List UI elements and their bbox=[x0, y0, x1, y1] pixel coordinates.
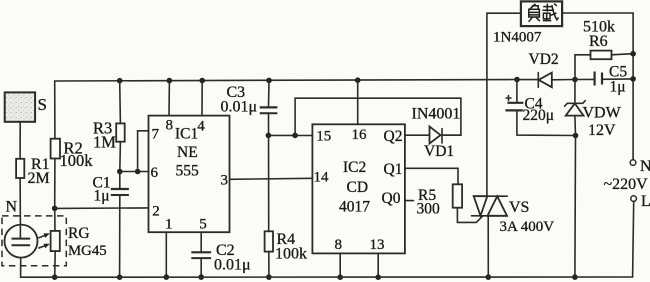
svg-text:0.01μ: 0.01μ bbox=[221, 99, 258, 116]
wire: triac MT1 to ground bbox=[487, 216, 489, 277]
svg-text:5: 5 bbox=[199, 217, 207, 233]
wire: pin15 node to IC2 pin 15 bbox=[268, 134, 312, 136]
svg-text:12V: 12V bbox=[588, 122, 616, 139]
wire: VDW node to ground bbox=[574, 136, 577, 278]
svg-text:NE: NE bbox=[177, 144, 198, 161]
wire: IC2 pin 13 to ground bbox=[377, 253, 379, 277]
svg-text:VDW: VDW bbox=[583, 105, 622, 122]
svg-text:Q1: Q1 bbox=[384, 161, 403, 178]
wire: pin6 node to IC1 pin 6 bbox=[120, 171, 149, 173]
junction: C4 / VDW bottom node bbox=[573, 133, 579, 139]
wire: top VCC rail bbox=[55, 80, 517, 82]
svg-text:1: 1 bbox=[165, 217, 173, 233]
junction: pin2 node bbox=[52, 206, 58, 212]
svg-text:S: S bbox=[38, 95, 47, 114]
terminal N bbox=[630, 158, 650, 175]
wire: R1 to neon lamp bbox=[19, 178, 21, 225]
wire: S to R1 bbox=[19, 122, 21, 159]
svg-text:16: 16 bbox=[352, 127, 368, 143]
wire: Q1 to R5 bbox=[405, 168, 458, 184]
svg-text:VS: VS bbox=[509, 199, 529, 216]
capacitor C3 bbox=[221, 80, 278, 115]
capacitor C4 bbox=[505, 80, 554, 124]
svg-text:1N4007: 1N4007 bbox=[493, 30, 542, 46]
wire: bottom ground rail bbox=[21, 276, 633, 278]
wire: Q2 to VD1 bbox=[405, 134, 430, 136]
capacitor C2 bbox=[191, 232, 250, 273]
junction: rail / VD2 / C4 node bbox=[514, 77, 520, 83]
resistor R4 bbox=[265, 231, 307, 262]
wire: C2 to ground bbox=[200, 258, 202, 277]
wire: R2 to pin2 node bbox=[54, 159, 56, 209]
svg-text:220μ: 220μ bbox=[523, 107, 555, 124]
junction: C1 ground bbox=[117, 274, 123, 280]
glyph 负 bbox=[529, 4, 540, 22]
neon lamp N bbox=[5, 199, 38, 258]
wire: reset loop up-over from pin15 to VD1 bbox=[295, 98, 461, 135]
wire: load left lead bbox=[487, 12, 521, 14]
resistor R5 bbox=[417, 184, 463, 217]
resistor R2 bbox=[51, 139, 94, 171]
wire: RG to ground rail bbox=[54, 251, 57, 277]
junction: pin7 branch on pin6 wire bbox=[135, 169, 141, 175]
wire: C4 bottom to VDW node bbox=[517, 110, 576, 135]
wire: R5 to triac gate bbox=[457, 208, 483, 223]
wire: rail to R3 bbox=[119, 81, 122, 124]
capacitor C5 bbox=[575, 64, 633, 96]
junction: rail / C3 bbox=[266, 78, 272, 84]
junction: C5 / right vertical bbox=[630, 76, 636, 82]
svg-text:13: 13 bbox=[370, 237, 385, 253]
junction: IC2 pin13 ground bbox=[375, 274, 381, 280]
svg-text:0.01μ: 0.01μ bbox=[214, 257, 251, 274]
svg-text:100k: 100k bbox=[275, 245, 307, 262]
svg-text:1μ: 1μ bbox=[94, 188, 110, 205]
resistor R6 510k bbox=[575, 19, 633, 80]
terminal L bbox=[631, 193, 650, 210]
optocoupler dashed box bbox=[2, 216, 66, 266]
svg-text:4: 4 bbox=[197, 118, 205, 134]
junction: triac ground bbox=[486, 274, 492, 280]
junction: VDW ground bbox=[572, 274, 578, 280]
photoresistor RG bbox=[51, 225, 107, 259]
junction: rail / IC2 pin 16 bbox=[355, 77, 361, 83]
wire: load right lead bbox=[562, 13, 633, 160]
junction: reset loop / pin15 wire bbox=[292, 133, 298, 139]
svg-text:2M: 2M bbox=[28, 170, 50, 187]
wire: rail to IC1 pin 4 bbox=[201, 81, 203, 116]
wire: IC2 pin 8 to ground bbox=[339, 253, 341, 277]
wire: L terminal down to ground rail corner bbox=[633, 201, 634, 277]
junction: rail / IC1 pin 4 bbox=[199, 78, 205, 84]
resistor R1 bbox=[16, 156, 50, 187]
wire: Q0 stub bbox=[405, 200, 414, 202]
svg-text:VD1: VD1 bbox=[424, 143, 454, 160]
wire: R3 to pin6 node bbox=[119, 142, 122, 172]
wire: R4 to ground bbox=[268, 252, 270, 278]
resistor R3 bbox=[93, 119, 125, 152]
svg-text:6: 6 bbox=[151, 165, 159, 181]
svg-text:N: N bbox=[6, 199, 18, 216]
svg-text:IC2: IC2 bbox=[343, 159, 366, 176]
svg-text:Q0: Q0 bbox=[382, 190, 401, 207]
load box 负载 bbox=[521, 1, 562, 26]
svg-text:555: 555 bbox=[176, 163, 200, 180]
touch plate S bbox=[5, 92, 47, 121]
wire: pin2 node to IC1 pin 2 bbox=[55, 207, 149, 210]
svg-text:1M: 1M bbox=[93, 132, 116, 151]
svg-text:RG: RG bbox=[68, 225, 90, 242]
junction: R6 / right vertical bbox=[630, 51, 636, 57]
svg-text:MG45: MG45 bbox=[68, 243, 107, 259]
diode VD2 1N4007 bbox=[517, 51, 575, 87]
junction: C2 ground bbox=[198, 274, 204, 280]
junction: pin15/C3/R4 node bbox=[266, 133, 272, 139]
svg-text:IN4001: IN4001 bbox=[412, 106, 461, 123]
junction: RG ground bbox=[52, 274, 58, 280]
wire: rail to IC2 pin 16 bbox=[357, 80, 359, 124]
svg-text:1μ: 1μ bbox=[610, 79, 626, 96]
glyph 载 bbox=[542, 4, 558, 21]
svg-text:Q2: Q2 bbox=[384, 128, 403, 145]
junction: VD2 / R6 / C5 / VDW node bbox=[572, 77, 578, 83]
svg-text:IC1: IC1 bbox=[175, 126, 198, 143]
wire: IC1 pin 3 to IC2 pin 14 bbox=[230, 178, 313, 179]
junction: rail / R3 bbox=[117, 78, 123, 84]
svg-text:7: 7 bbox=[152, 127, 160, 143]
wire: neon lamp to ground rail bbox=[20, 258, 22, 278]
svg-text:R6: R6 bbox=[589, 33, 608, 50]
wire: IC1 pin 7 jog to pin6 wire bbox=[138, 131, 149, 172]
svg-text:4017: 4017 bbox=[339, 199, 370, 216]
junction: IC2 pin8 ground bbox=[337, 274, 343, 280]
junction: R4 ground bbox=[266, 274, 272, 280]
svg-text:~220V: ~220V bbox=[604, 176, 649, 193]
wire: pin2 node down to RG bbox=[54, 208, 56, 231]
light arrows from lamp to RG bbox=[39, 233, 50, 248]
diode VD1 IN4001 bbox=[412, 106, 461, 160]
junction: pin6 node at R3/C1 bbox=[117, 169, 123, 175]
svg-text:3A 400V: 3A 400V bbox=[500, 219, 555, 235]
triac VS bbox=[472, 196, 555, 235]
IC2 CD4017 box bbox=[312, 124, 405, 253]
wire: rail corner down to R2 bbox=[54, 81, 56, 139]
svg-text:14: 14 bbox=[314, 169, 330, 185]
svg-text:8: 8 bbox=[166, 117, 174, 133]
svg-text:L: L bbox=[641, 193, 650, 210]
junction: pin1 ground bbox=[164, 274, 170, 280]
svg-text:15: 15 bbox=[316, 128, 331, 144]
svg-text:8: 8 bbox=[335, 237, 343, 253]
svg-text:100k: 100k bbox=[60, 151, 94, 170]
wire: C3 down through pin15 node to R4 bbox=[268, 113, 270, 231]
svg-text:3: 3 bbox=[221, 173, 229, 189]
wire: load down to triac MT2 bbox=[486, 13, 488, 196]
svg-text:N: N bbox=[640, 158, 650, 175]
svg-text:VD2: VD2 bbox=[529, 51, 559, 68]
wire: C1 to ground rail bbox=[119, 196, 121, 278]
wire: rail to IC1 pin 8 bbox=[168, 81, 170, 116]
wire: VD1 cathode to loop corner bbox=[442, 134, 461, 136]
junction: rail / IC1 pin 8 bbox=[167, 78, 173, 84]
zener diode VDW bbox=[565, 80, 622, 140]
svg-text:CD: CD bbox=[347, 179, 369, 196]
wire: IC1 pin 1 to ground bbox=[165, 232, 167, 277]
svg-text:2: 2 bbox=[152, 203, 160, 219]
svg-text:300: 300 bbox=[417, 200, 441, 217]
capacitor C1 bbox=[93, 172, 129, 205]
op-amp U1: IC1 NE555 box bbox=[149, 116, 230, 233]
